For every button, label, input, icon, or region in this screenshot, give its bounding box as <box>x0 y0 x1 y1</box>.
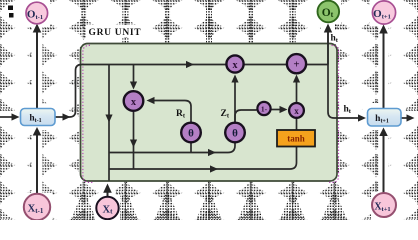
wire Z gate up to x2 <box>234 81 236 122</box>
svg-text:1-: 1- <box>261 105 268 114</box>
GRU box <box>81 44 338 182</box>
svg-text:GRU UNIT: GRU UNIT <box>89 28 142 38</box>
node X(t-1) <box>24 194 50 220</box>
wire h(t+1) out right <box>401 117 407 119</box>
node h(t-1) box <box>21 109 56 126</box>
head into h(t+1) from below <box>379 128 388 137</box>
wire 1- to x3 <box>272 109 282 111</box>
wire h(t+1) to O(t+1) <box>383 32 385 109</box>
wire R gate down to bus <box>190 143 192 153</box>
circle plus <box>287 54 306 73</box>
node O(t-1) <box>26 2 48 24</box>
head on h entry wire <box>63 113 71 120</box>
head into O(t+1) <box>379 25 388 34</box>
svg-text:x: x <box>233 60 238 71</box>
svg-text:θ: θ <box>188 128 194 140</box>
head mid bus <box>186 61 194 68</box>
wire R gate up-left into x1 <box>153 101 191 123</box>
wire bus to tanh <box>109 147 297 169</box>
head on x1 down wire <box>130 140 137 148</box>
circle theta R <box>181 123 201 143</box>
head mid bus tanh <box>210 165 218 172</box>
wire bus to R gate and Z gate <box>109 143 235 153</box>
wire X(t-1) to h(t-1) <box>36 134 38 194</box>
wire output branch down to h(t+1) <box>328 65 359 119</box>
head out right edge <box>407 114 415 121</box>
wire vertical trunk x=109 <box>108 65 110 181</box>
head into x1 right <box>147 97 155 104</box>
arrowheads <box>12 24 415 193</box>
head into x1 top <box>130 82 137 90</box>
tanh box <box>277 130 315 147</box>
head into plus bottom <box>293 75 300 83</box>
circle x3 <box>289 103 304 118</box>
wire X(t+1) to h(t+1) <box>383 135 385 194</box>
svg-text:+: + <box>293 59 299 71</box>
head on trunk down <box>105 115 112 123</box>
svg-text:x: x <box>294 106 299 116</box>
head into O(t-1) <box>33 24 42 33</box>
magenta dashed frame <box>83 45 339 182</box>
wire h(t-1) to O(t-1) <box>36 31 38 109</box>
wire x3 up to plus <box>296 81 298 102</box>
wire h(t-1) entry arrow <box>0 116 13 118</box>
wire X(t) input <box>107 190 109 197</box>
head into h(t-1) from below <box>33 127 42 136</box>
wire h(t-1) into box bus <box>55 65 328 118</box>
node O(t+1) <box>372 1 395 24</box>
extra lace texture: top column bands and bottom peaks <box>39 2 379 221</box>
svg-text:tanh: tanh <box>287 134 305 144</box>
head into x3 left <box>280 106 288 113</box>
node X(t) <box>96 197 118 219</box>
svg-text:θ: θ <box>232 128 238 140</box>
head into x2 bottom <box>231 75 238 83</box>
circle theta Z <box>225 123 245 143</box>
circle x1 <box>124 91 144 111</box>
svg-text:x: x <box>131 97 136 108</box>
head mid bus R <box>208 149 216 156</box>
head X(t) into box <box>103 184 112 193</box>
node h(t+1) box <box>368 109 402 127</box>
head into h(t+1) <box>358 114 366 121</box>
head into O(t) <box>324 24 332 33</box>
wire Z branch to 1- <box>235 110 257 122</box>
wire output branch up to O(t) <box>327 31 329 65</box>
circle one-minus <box>257 102 270 115</box>
wire drop into x1 <box>133 65 135 84</box>
wire x1 down to bus <box>133 112 135 169</box>
circle x2 top <box>226 55 243 72</box>
head into h(t-1) from left <box>12 113 20 120</box>
wire tanh to x3 <box>296 119 298 131</box>
node X(t+1) <box>372 193 396 217</box>
node O(t) <box>318 1 340 23</box>
decorative dark marks top-left <box>8 6 13 11</box>
